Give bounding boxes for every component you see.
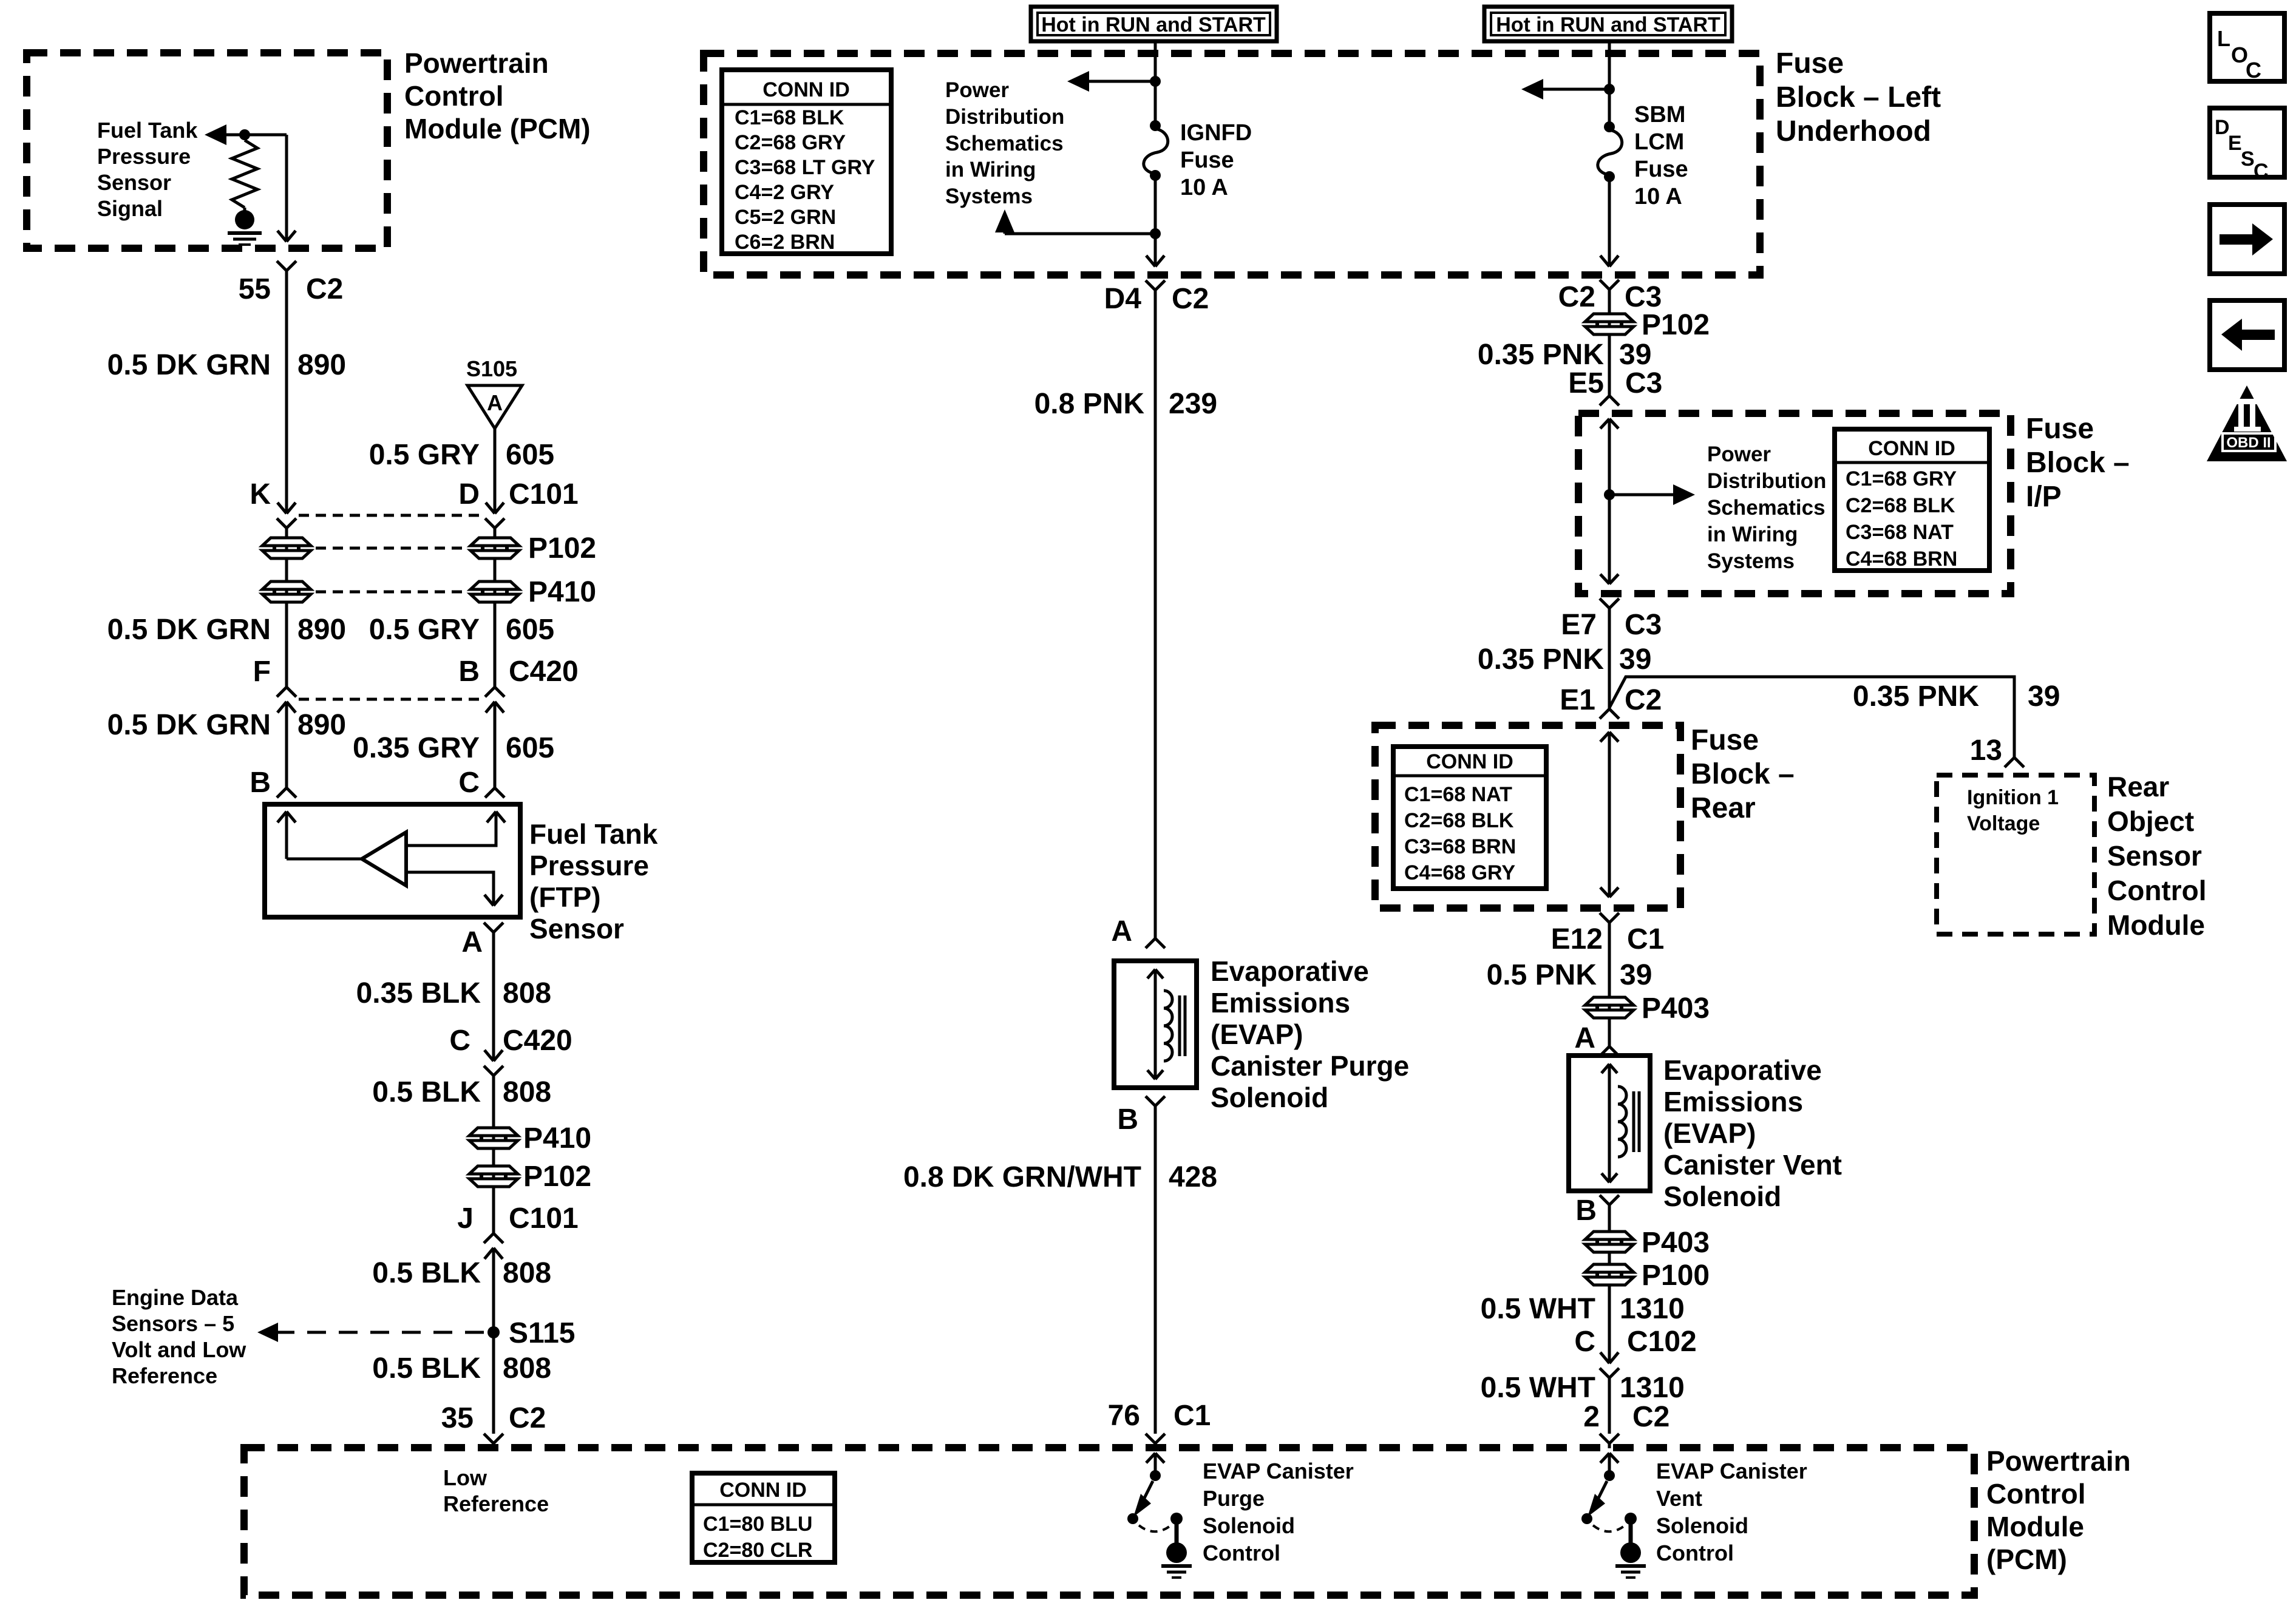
svg-text:S115: S115 [509,1317,575,1349]
svg-text:0.35 PNK: 0.35 PNK [1853,680,1979,713]
I/P internal wire [1600,419,1618,429]
svg-text:0.8 PNK: 0.8 PNK [1034,388,1145,420]
svg-text:CONN ID: CONN ID [763,78,850,101]
label Hot in RUN and START (right) [1484,7,1732,41]
ground (vent driver) [1615,1542,1646,1578]
svg-text:Pressure: Pressure [97,144,191,169]
svg-text:P403: P403 [1642,1227,1710,1259]
svg-text:890: 890 [297,614,346,646]
svg-text:Fuse: Fuse [1691,724,1759,756]
svg-text:Canister Purge: Canister Purge [1211,1050,1409,1082]
svg-text:Purge: Purge [1203,1486,1265,1511]
FTP internal right top wire [406,812,496,846]
svg-text:0.35 PNK: 0.35 PNK [1478,339,1604,371]
svg-text:CONN ID: CONN ID [1426,750,1513,773]
svg-text:A: A [461,926,483,958]
svg-text:E1: E1 [1560,684,1595,716]
svg-text:C420: C420 [509,656,579,688]
connector pin D4 C2 (Y) [1146,280,1165,290]
svg-text:L: L [2217,26,2230,51]
node junction dot [239,129,250,140]
svg-text:Hot in RUN and START: Hot in RUN and START [1041,13,1266,36]
svg-text:CONN ID: CONN ID [1868,437,1955,460]
icon left-arrow box [2210,300,2284,370]
connector purge solenoid pin B (Y) [1146,1096,1165,1106]
wire fuse to box exit [1608,177,1611,266]
wire to power distribution up arrow [1005,232,1155,236]
svg-text:890: 890 [297,709,346,741]
connector P403 pass-through (lower) [1585,1232,1634,1252]
svg-text:C6=2 BRN: C6=2 BRN [735,231,835,254]
arrowhead left [1067,71,1089,92]
switch vent solenoid driver (in PCM) [1581,1453,1637,1545]
svg-text:C2: C2 [306,273,343,305]
svg-text:76: 76 [1108,1400,1140,1432]
label SBM LCM Fuse 10 A [1634,102,1688,209]
svg-text:C4=68 BRN: C4=68 BRN [1846,547,1957,571]
svg-text:Block –: Block – [1691,758,1795,790]
wire 39 segment 1 [1608,290,1611,396]
svg-text:Fuel Tank: Fuel Tank [97,118,198,143]
connector pin 55 C2 (Y symbol) [277,261,296,271]
wire branch to rear object sensor [1609,677,2014,758]
svg-text:P410: P410 [523,1122,591,1154]
label Fuse Block - I/P [2026,413,2130,513]
svg-text:I/P: I/P [2026,481,2062,513]
svg-text:10 A: 10 A [1634,184,1682,209]
label EVAP Canister Vent Solenoid Control [1656,1459,1807,1565]
svg-text:39: 39 [1619,339,1651,371]
svg-text:Volt and Low: Volt and Low [112,1337,246,1362]
svg-text:P403: P403 [1642,992,1710,1025]
label Fuel Tank Pressure (FTP) Sensor [529,818,658,944]
svg-text:P410: P410 [528,576,596,608]
svg-text:E7: E7 [1561,609,1597,641]
purge solenoid core bars [1180,995,1185,1056]
svg-text:(PCM): (PCM) [1986,1544,2067,1575]
svg-text:35: 35 [441,1402,474,1434]
svg-text:Solenoid: Solenoid [1211,1082,1328,1113]
wire to power distribution arrow (I/P) [1609,493,1683,497]
arrowhead down at box exit [1146,256,1164,266]
svg-text:SBM: SBM [1634,102,1685,127]
wire dashed link C101 [299,514,483,517]
wire PCM internal horizontal [211,134,287,137]
svg-text:C3: C3 [1625,367,1662,399]
svg-text:0.5 DK GRN: 0.5 DK GRN [107,709,271,741]
label Evaporative Emissions (EVAP) Canister Vent Solenoid [1663,1054,1842,1212]
svg-text:13: 13 [1970,734,2002,767]
wire 890 segment 3 [285,702,288,788]
svg-text:C: C [458,767,480,799]
svg-text:C1=68 NAT: C1=68 NAT [1404,783,1512,806]
svg-text:Signal: Signal [97,196,163,221]
svg-text:428: 428 [1169,1161,1217,1193]
svg-text:OBD II: OBD II [2226,435,2271,451]
arrowhead right [1673,484,1695,505]
switch purge solenoid driver (in PCM) [1127,1453,1183,1545]
svg-text:0.8 DK GRN/WHT: 0.8 DK GRN/WHT [903,1161,1141,1193]
wire 605 segment 1 [494,429,497,514]
svg-text:239: 239 [1169,388,1217,420]
label Fuse Block - Left Underhood [1776,47,1941,147]
svg-text:C2=68 BLK: C2=68 BLK [1846,494,1955,517]
svg-text:Module (PCM): Module (PCM) [404,113,591,144]
svg-text:C2=68 GRY: C2=68 GRY [735,131,846,154]
wire 890 segment 2 [285,528,288,687]
svg-text:808: 808 [503,1076,551,1108]
svg-text:0.5 GRY: 0.5 GRY [369,614,480,646]
svg-text:D: D [2215,116,2230,139]
connector pin C2 C3 (Y) [1600,280,1619,290]
svg-text:Block – Left: Block – Left [1776,81,1941,114]
svg-text:Ignition 1: Ignition 1 [1967,786,2059,809]
svg-text:C: C [2246,58,2261,83]
rear box internal wire [1600,732,1618,742]
svg-text:C1: C1 [1627,923,1664,955]
table CONN ID (PCM bottom) [692,1473,835,1562]
svg-text:Block –: Block – [2026,447,2130,479]
resistor (pull-up in PCM) [232,140,257,208]
node junction dot [1150,76,1161,87]
svg-text:Sensor: Sensor [97,170,171,195]
splice S115 dot [487,1326,500,1338]
svg-text:Evaporative: Evaporative [1211,955,1369,987]
svg-text:Reference: Reference [443,1491,549,1516]
svg-text:Control: Control [1656,1541,1734,1565]
svg-text:605: 605 [506,439,554,471]
svg-text:D: D [458,478,480,510]
svg-text:Hot in RUN and START: Hot in RUN and START [1496,13,1720,36]
wire 890 segment 1 [285,271,288,514]
svg-text:Engine Data: Engine Data [112,1285,239,1310]
svg-text:C1=80 BLU: C1=80 BLU [703,1513,812,1536]
FTP internal left arrow up [277,812,296,822]
svg-text:Solenoid: Solenoid [1656,1513,1748,1538]
svg-text:0.5 WHT: 0.5 WHT [1481,1293,1595,1325]
svg-text:C420: C420 [503,1025,572,1057]
svg-text:Solenoid: Solenoid [1203,1513,1295,1538]
connector vent solenoid pin B (Y) [1600,1195,1619,1205]
sensor FTP box [265,804,520,917]
svg-text:Powertrain: Powertrain [404,47,549,79]
wire PCM internal vertical to pin 55 [285,135,288,242]
svg-text:C5=2 GRN: C5=2 GRN [735,206,836,229]
svg-text:Powertrain: Powertrain [1986,1445,2131,1477]
fuse block Left Underhood dashed box [704,53,1760,275]
svg-text:Reference: Reference [112,1363,217,1388]
svg-text:Systems: Systems [1707,549,1795,573]
svg-text:C102: C102 [1627,1326,1697,1358]
svg-text:P102: P102 [1642,309,1710,341]
vent solenoid internal arrow [1601,1064,1617,1073]
svg-text:B: B [1575,1195,1597,1227]
wire from Hot box to fuse IGNFD [1154,41,1157,126]
svg-text:S: S [2241,147,2255,171]
connector P102 pass-through (right) [1585,314,1634,334]
svg-text:0.5 DK GRN: 0.5 DK GRN [107,614,271,646]
svg-text:Underhood: Underhood [1776,115,1931,147]
wire 808 segment 2 [492,1076,495,1233]
svg-text:Vent: Vent [1656,1486,1702,1511]
svg-text:(EVAP): (EVAP) [1663,1117,1756,1149]
wire to power distribution arrow (right) [1533,88,1609,91]
svg-text:605: 605 [506,732,554,764]
wire 808 segment 1 [492,932,495,1061]
connector P102 pass-through (single) [469,1166,518,1187]
svg-text:808: 808 [503,1352,551,1385]
svg-text:C1=68 GRY: C1=68 GRY [1846,467,1957,490]
svg-text:0.35 PNK: 0.35 PNK [1478,643,1604,676]
arrowhead left [1521,79,1543,100]
label Hot in RUN and START (left) [1031,7,1277,41]
svg-text:B: B [458,656,480,688]
splice S105 triangle [467,385,522,429]
label IGNFD Fuse 10 A [1180,120,1252,200]
svg-text:0.5 BLK: 0.5 BLK [372,1076,481,1108]
svg-text:Sensor: Sensor [2107,840,2202,872]
svg-text:1310: 1310 [1620,1372,1685,1404]
wire 428 [1154,1106,1157,1434]
svg-text:C2: C2 [1625,684,1662,716]
label EVAP Canister Purge Solenoid Control [1203,1459,1354,1565]
connector P403 pass-through [1585,997,1634,1018]
svg-text:C101: C101 [509,478,579,510]
svg-text:LCM: LCM [1634,129,1684,155]
svg-text:C3=68 BRN: C3=68 BRN [1404,835,1516,858]
arrowhead left (engine data) [257,1323,278,1342]
svg-text:A: A [487,390,503,415]
svg-text:B: B [1117,1103,1138,1136]
wire 39 segment 2 [1608,608,1611,709]
node junction dot [1604,84,1615,95]
svg-text:Fuse: Fuse [2026,413,2094,445]
svg-text:C2: C2 [1632,1401,1669,1433]
svg-text:605: 605 [506,614,554,646]
svg-text:IGNFD: IGNFD [1180,120,1252,146]
icon DESC box [2210,108,2284,183]
icon OBD II triangle [2207,385,2287,461]
svg-text:A: A [1111,915,1132,947]
svg-text:K: K [250,478,271,510]
svg-text:1310: 1310 [1620,1293,1685,1325]
wire fuse to box exit [1154,175,1157,266]
vent solenoid core bars [1634,1091,1639,1152]
svg-text:EVAP Canister: EVAP Canister [1203,1459,1354,1483]
svg-text:in Wiring: in Wiring [945,158,1036,181]
label Rear Object Sensor Control Module [2107,771,2207,941]
svg-text:39: 39 [1620,959,1652,991]
svg-text:Solenoid: Solenoid [1663,1181,1781,1212]
wire to power distribution arrow [1079,80,1155,83]
connector P410 pass-through (left pair) [262,581,311,602]
svg-text:Control: Control [404,80,504,112]
wire 1310 segment 2 [1608,1378,1611,1434]
fuse block Rear dashed box [1375,725,1680,908]
ground (PCM internal) [228,210,262,245]
svg-text:0.5 GRY: 0.5 GRY [369,439,480,471]
svg-text:Fuse: Fuse [1180,147,1234,173]
svg-text:F: F [253,656,271,688]
svg-text:C2: C2 [509,1402,546,1434]
svg-text:39: 39 [2028,680,2060,713]
svg-text:Power: Power [945,78,1009,102]
svg-text:Voltage: Voltage [1967,812,2040,835]
svg-text:E: E [2228,132,2242,155]
svg-text:0.35 BLK: 0.35 BLK [356,977,481,1009]
svg-text:Fuse: Fuse [1634,157,1688,182]
svg-text:D4: D4 [1104,283,1142,315]
svg-text:J: J [457,1202,474,1235]
vent solenoid coil [1618,1086,1626,1157]
icon LOC box [2210,13,2284,83]
FTP internal amplifier triangle [362,832,406,886]
svg-text:P102: P102 [528,532,596,564]
svg-text:C4=2 GRY: C4=2 GRY [735,181,834,204]
ground (purge driver) [1161,1542,1192,1578]
arrowhead down at box exit [1600,256,1618,266]
svg-text:808: 808 [503,977,551,1009]
svg-text:Control: Control [2107,875,2207,906]
svg-text:E12: E12 [1551,923,1603,955]
svg-text:(FTP): (FTP) [529,881,601,913]
wire resistor to ground [243,208,246,214]
svg-text:C2: C2 [1172,283,1209,315]
svg-text:Evaporative: Evaporative [1663,1054,1822,1086]
connector I/P exit fork [1600,598,1619,608]
svg-text:890: 890 [297,349,346,381]
svg-text:(EVAP): (EVAP) [1211,1019,1303,1050]
svg-text:C4=68 GRY: C4=68 GRY [1404,861,1515,884]
svg-text:Canister Vent: Canister Vent [1663,1149,1842,1181]
icon right-arrow box [2210,205,2284,274]
fuse SBM LCM 10A [1598,121,1622,182]
label Fuel Tank Pressure Sensor Signal [97,118,198,221]
module PCM (top) dashed box [27,53,387,248]
svg-text:Control: Control [1986,1478,2086,1510]
svg-text:0.5 BLK: 0.5 BLK [372,1352,481,1385]
svg-text:C1: C1 [1173,1400,1211,1432]
table CONN ID (underhood) [722,70,891,254]
svg-text:A: A [1574,1022,1595,1054]
svg-text:Fuel Tank: Fuel Tank [529,818,658,850]
svg-text:Module: Module [1986,1511,2084,1542]
arrowhead down at PCM exit [277,231,296,242]
module rear object sensor dashed box [1937,775,2094,934]
table CONN ID (I/P) [1835,429,1989,571]
connector FTP pin A (Y) [484,923,503,932]
label Ignition 1 Voltage [1967,786,2059,835]
svg-text:Rear: Rear [1691,792,1756,824]
wire 1310 segment 1 [1608,1205,1611,1363]
svg-text:55: 55 [239,273,271,305]
svg-text:C1=68 BLK: C1=68 BLK [735,106,844,129]
svg-text:Low: Low [443,1465,487,1490]
svg-text:C3=68 LT GRY: C3=68 LT GRY [735,156,875,179]
svg-text:Sensor: Sensor [529,913,624,944]
label Low Reference [443,1465,549,1516]
solenoid EVAP canister vent box [1569,1056,1650,1191]
label Powertrain Control Module (PCM) bottom [1986,1445,2131,1575]
label Fuse Block - Rear [1691,724,1795,824]
svg-text:Control: Control [1203,1541,1280,1565]
svg-text:0.35 GRY: 0.35 GRY [353,732,480,764]
svg-text:0.5 DK GRN: 0.5 DK GRN [107,349,271,381]
svg-text:Emissions: Emissions [1211,987,1350,1019]
svg-text:Sensors – 5: Sensors – 5 [112,1311,234,1336]
FTP internal right bottom wire [406,872,494,906]
svg-text:EVAP Canister: EVAP Canister [1656,1459,1807,1483]
label Evaporative Emissions (EVAP) Canister Purge Solenoid [1211,955,1409,1113]
svg-text:Power: Power [1707,442,1771,466]
svg-text:0.5 WHT: 0.5 WHT [1481,1372,1595,1404]
svg-text:P102: P102 [523,1161,591,1193]
solenoid EVAP canister purge box [1114,961,1197,1088]
svg-text:P100: P100 [1642,1259,1710,1292]
svg-text:Systems: Systems [945,185,1033,208]
svg-text:808: 808 [503,1257,551,1289]
svg-text:Schematics: Schematics [1707,496,1826,520]
svg-text:10 A: 10 A [1180,175,1228,200]
svg-text:Pressure: Pressure [529,850,649,881]
purge solenoid internal arrow [1147,969,1163,978]
svg-text:in Wiring: in Wiring [1707,523,1798,546]
svg-text:Schematics: Schematics [945,132,1064,155]
wire 605 segment 3 [494,702,497,788]
svg-text:Distribution: Distribution [945,105,1064,129]
svg-text:C2=68 BLK: C2=68 BLK [1404,809,1514,832]
wire 808 segment 3 [492,1248,495,1434]
wire 605 segment 2 [494,528,497,687]
svg-text:C101: C101 [509,1202,579,1235]
svg-text:C3=68 NAT: C3=68 NAT [1846,521,1954,544]
svg-text:C: C [2254,160,2269,183]
svg-text:Distribution: Distribution [1707,469,1826,493]
connector rear box exit (Y) [1600,913,1619,923]
module PCM (bottom) dashed box [244,1448,1974,1595]
svg-text:Fuse: Fuse [1776,47,1844,80]
svg-text:Object: Object [2107,805,2194,837]
svg-text:Emissions: Emissions [1663,1086,1803,1117]
label Power Distribution Schematics (I/P) [1707,442,1826,573]
label Engine Data Sensors [112,1285,246,1388]
wire 239 [1154,290,1157,938]
svg-text:S105: S105 [466,356,517,381]
label Powertrain Control Module (PCM) [404,47,591,144]
wire from Hot box to fuse SBM [1608,41,1611,127]
connector P102 pass-through (left pair) [262,538,311,558]
svg-text:CONN ID: CONN ID [719,1479,807,1502]
node junction dot (I/P) [1604,489,1615,500]
wire 39 segment 3 [1608,923,1611,1046]
svg-text:C2: C2 [1558,281,1595,313]
connector P100 pass-through [1585,1264,1634,1285]
svg-text:C2=80 CLR: C2=80 CLR [703,1539,812,1562]
svg-text:C: C [449,1025,470,1057]
svg-text:2: 2 [1583,1401,1600,1433]
svg-text:C3: C3 [1625,609,1662,641]
arrowhead up [995,209,1014,232]
svg-text:39: 39 [1619,643,1651,676]
fuse IGNFD 10A [1144,120,1168,181]
wire dashed to Engine Data Sensors [265,1331,484,1334]
svg-text:0.5 PNK: 0.5 PNK [1487,959,1597,991]
node junction dot [1150,228,1161,239]
svg-text:B: B [250,767,271,799]
connector P410 pass-through (single) [469,1128,518,1148]
svg-text:Rear: Rear [2107,771,2169,802]
svg-text:Module: Module [2107,909,2205,941]
